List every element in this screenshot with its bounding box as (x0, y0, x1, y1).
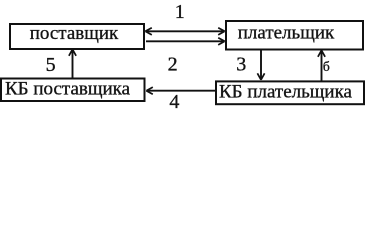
svg-text:5: 5 (46, 54, 56, 76)
svg-text:3: 3 (236, 53, 246, 75)
svg-text:КБ плательщика: КБ плательщика (219, 81, 353, 102)
svg-text:поставщик: поставщик (30, 23, 119, 44)
svg-text:2: 2 (168, 53, 178, 75)
svg-text:плательщик: плательщик (238, 23, 335, 44)
svg-text:КБ поставщика: КБ поставщика (5, 79, 131, 100)
svg-text:4: 4 (169, 91, 179, 113)
svg-text:1: 1 (175, 1, 185, 23)
svg-text:б: б (323, 59, 330, 74)
